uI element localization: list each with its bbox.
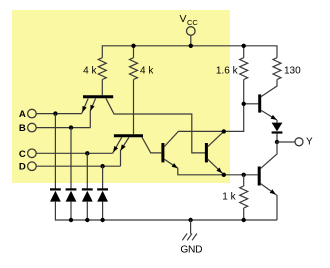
svg-text:1.6 k: 1.6 k <box>216 65 239 76</box>
svg-text:C: C <box>19 149 26 160</box>
svg-text:Y: Y <box>306 137 313 148</box>
svg-text:D: D <box>19 162 26 173</box>
svg-text:1 k: 1 k <box>222 192 236 203</box>
svg-text:4 k: 4 k <box>83 65 97 76</box>
svg-text:A: A <box>19 109 26 120</box>
svg-text:B: B <box>19 123 26 134</box>
svg-text:CC: CC <box>187 18 198 27</box>
svg-text:4 k: 4 k <box>140 65 154 76</box>
svg-text:130: 130 <box>284 65 301 76</box>
svg-text:V: V <box>180 13 187 25</box>
svg-text:GND: GND <box>180 244 202 255</box>
